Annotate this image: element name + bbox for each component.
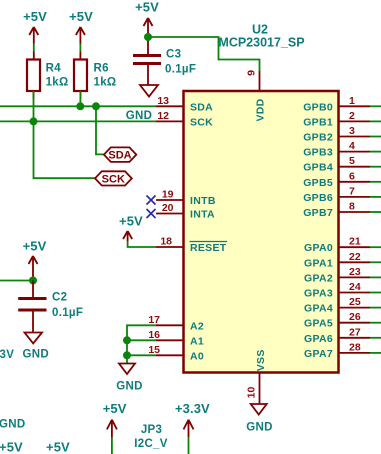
svg-text:16: 16	[148, 329, 160, 341]
svg-text:8: 8	[349, 201, 355, 213]
svg-text:13: 13	[157, 95, 169, 107]
svg-text:GPB6: GPB6	[303, 192, 333, 204]
svg-text:GND: GND	[116, 381, 142, 393]
svg-text:A1: A1	[190, 335, 204, 347]
power +5V symbol (RESET)	[123, 231, 132, 241]
svg-text:INTA: INTA	[190, 209, 215, 221]
svg-text:JP3: JP3	[141, 424, 162, 436]
no-connect X pin 20	[147, 209, 156, 218]
svg-text:SCK: SCK	[102, 173, 125, 185]
svg-text:0.1µF: 0.1µF	[52, 307, 83, 319]
capacitor C3	[133, 37, 161, 85]
svg-text:A2: A2	[190, 320, 204, 332]
pin 13 SDA stub	[156, 95, 213, 114]
svg-text:21: 21	[349, 236, 361, 248]
wire SDA branch down to label	[96, 106, 104, 154]
junction node SDA branch	[92, 102, 100, 110]
junction node R4/SCK bus	[30, 117, 38, 125]
wire +5V to R6	[79, 44, 81, 52]
svg-text:GND: GND	[246, 422, 272, 434]
svg-text:5: 5	[349, 155, 355, 167]
pin 9 VDD stub	[246, 70, 267, 122]
svg-text:MCP23017_SP: MCP23017_SP	[218, 36, 304, 50]
junction node C2 top	[29, 277, 37, 285]
svg-text:3V: 3V	[0, 349, 14, 361]
svg-text:+5V: +5V	[23, 9, 47, 24]
svg-text:15: 15	[148, 344, 160, 356]
junction node R6/SDA bus	[76, 102, 84, 110]
svg-text:+5V: +5V	[23, 239, 47, 254]
svg-text:+5V: +5V	[46, 439, 70, 454]
junction node A1	[123, 336, 131, 344]
svg-text:GPB1: GPB1	[303, 116, 333, 128]
svg-text:23: 23	[349, 266, 361, 278]
wire SCK bus (horizontal, to pin 12)	[0, 120, 156, 122]
pin stub R6 bottom	[79, 91, 81, 99]
svg-text:GPA5: GPA5	[304, 318, 333, 330]
resistor R4	[27, 60, 40, 92]
svg-text:SDA: SDA	[108, 150, 131, 162]
right-side GPB pins 1-8	[303, 95, 381, 114]
wire R6 lead down to SDA bus	[79, 91, 81, 106]
ground symbol (below C2)	[25, 333, 43, 344]
svg-text:17: 17	[148, 314, 160, 326]
svg-text:GPB4: GPB4	[303, 162, 333, 174]
svg-text:3: 3	[349, 125, 355, 137]
ground symbol (A0/A1/A2)	[119, 364, 135, 375]
svg-text:+5V: +5V	[103, 401, 127, 416]
resistor R6	[74, 60, 87, 92]
svg-text:24: 24	[349, 281, 361, 293]
power +5V symbol (above R4)	[29, 27, 38, 59]
svg-text:+5V: +5V	[69, 9, 93, 24]
svg-text:19: 19	[162, 189, 174, 201]
svg-text:12: 12	[157, 110, 169, 122]
svg-text:1: 1	[349, 95, 355, 107]
no-connect X pin 19	[147, 196, 156, 205]
right-side GPA pins 21-28	[304, 236, 381, 255]
pin 15 A0 stub	[148, 344, 204, 363]
svg-text:27: 27	[349, 326, 361, 338]
svg-text:GPA7: GPA7	[304, 348, 333, 360]
ground symbol (below C3)	[140, 85, 158, 97]
svg-text:GPB2: GPB2	[303, 132, 333, 144]
svg-text:+5V: +5V	[135, 0, 159, 15]
wire below +5V arrow to bottom edge	[111, 437, 113, 454]
capacitor C2	[18, 281, 46, 333]
wire +5V to RESET pin	[128, 241, 156, 247]
power +5V symbol (above C2)	[29, 256, 38, 281]
svg-text:GPA1: GPA1	[304, 257, 333, 269]
svg-text:26: 26	[349, 311, 361, 323]
svg-text:GPB0: GPB0	[303, 101, 333, 113]
svg-text:+5V: +5V	[119, 214, 143, 229]
wire A2/A1/A0 to ground	[127, 325, 156, 363]
ground symbol (VSS)	[251, 404, 267, 415]
svg-text:20: 20	[162, 202, 174, 214]
svg-text:GPA3: GPA3	[304, 288, 333, 300]
svg-text:2: 2	[349, 110, 355, 122]
power +5V symbol (above C3)	[144, 18, 153, 33]
global label SDA	[104, 147, 136, 162]
svg-text:GND: GND	[23, 349, 49, 361]
svg-text:22: 22	[349, 251, 361, 263]
svg-text:R4: R4	[46, 63, 62, 75]
power +3.3V symbol (JP3 right)	[184, 420, 194, 437]
svg-text:U2: U2	[252, 23, 268, 37]
svg-text:1kΩ: 1kΩ	[46, 77, 69, 89]
power +5V symbol (above R6)	[76, 27, 85, 59]
svg-text:GND: GND	[0, 419, 25, 431]
svg-text:28: 28	[349, 341, 361, 353]
svg-text:9: 9	[246, 70, 258, 76]
svg-text:A0: A0	[190, 350, 204, 362]
svg-text:SCK: SCK	[190, 116, 213, 128]
svg-text:R6: R6	[94, 63, 109, 75]
svg-text:GPB3: GPB3	[303, 147, 333, 159]
svg-text:VDD: VDD	[255, 98, 267, 121]
svg-text:INTB: INTB	[190, 195, 216, 207]
wire +5V to R4	[33, 44, 35, 52]
junction node at C3 top	[144, 33, 152, 41]
svg-text:7: 7	[349, 185, 355, 197]
svg-text:+3.3V: +3.3V	[175, 401, 210, 416]
pin 12 SCK stub	[156, 110, 213, 128]
wire R4 lead down to SCK bus and label	[34, 91, 96, 178]
svg-text:GND: GND	[126, 110, 152, 122]
wire VDD net from C3 junction to pin 9	[148, 37, 260, 71]
svg-text:18: 18	[160, 236, 172, 248]
svg-text:+5V: +5V	[0, 439, 23, 454]
svg-text:SDA: SDA	[190, 101, 213, 113]
power +5V symbol (JP3 left)	[107, 420, 117, 437]
junction node A0	[123, 351, 131, 359]
wire below +3.3V arrow to bottom edge	[188, 437, 190, 454]
svg-text:C3: C3	[166, 49, 181, 61]
global label SCK	[95, 171, 132, 185]
svg-text:6: 6	[349, 170, 355, 182]
svg-text:GPA6: GPA6	[304, 333, 333, 345]
svg-text:GPB5: GPB5	[303, 177, 333, 189]
pin 10 VSS stub	[246, 349, 268, 403]
svg-text:GPA4: GPA4	[304, 303, 333, 315]
svg-text:GPA0: GPA0	[304, 242, 333, 254]
pin stub R4 bottom	[33, 91, 35, 99]
pin 16 A1 stub	[148, 329, 204, 348]
svg-text:10: 10	[246, 387, 258, 399]
svg-text:4: 4	[349, 140, 355, 152]
svg-text:GPB7: GPB7	[303, 207, 333, 219]
svg-text:GPA2: GPA2	[304, 272, 333, 284]
svg-text:0.1µF: 0.1µF	[165, 64, 196, 76]
IC U2 body	[184, 91, 339, 373]
svg-text:RESET: RESET	[190, 242, 227, 254]
pin 19 INTB stub	[156, 189, 216, 208]
svg-text:VSS: VSS	[255, 349, 267, 371]
wire +5V to C3	[147, 33, 149, 37]
svg-text:25: 25	[349, 296, 361, 308]
pin 18 RESET stub	[156, 236, 227, 255]
pin 20 INTA stub	[156, 202, 215, 221]
svg-text:C2: C2	[52, 291, 67, 303]
wire to C2 from left edge	[0, 280, 33, 282]
svg-text:I2C_V: I2C_V	[134, 438, 167, 450]
wire SDA bus (horizontal, to pin 13)	[0, 105, 156, 107]
svg-text:1kΩ: 1kΩ	[94, 77, 117, 89]
pin 17 A2 stub	[148, 314, 204, 333]
